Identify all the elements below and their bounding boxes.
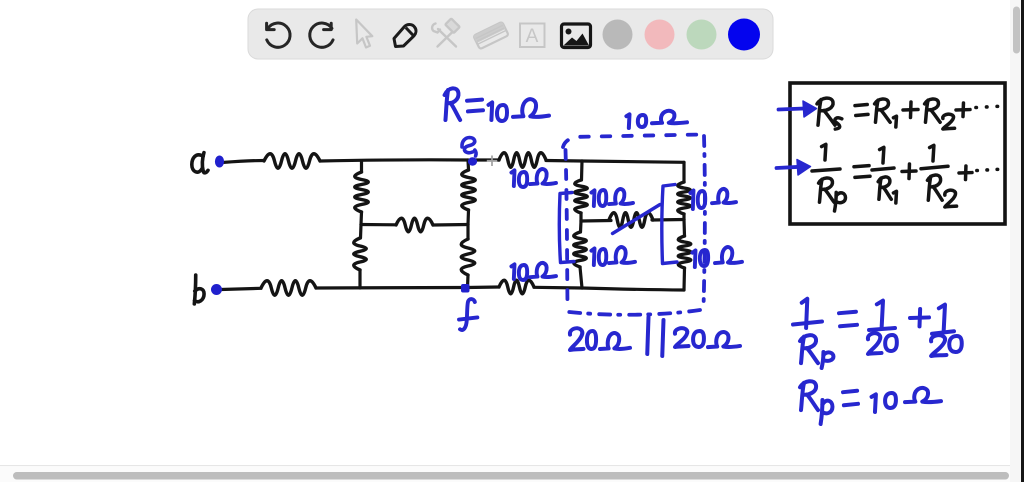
resistor b-J2 (bottom left) [261,281,316,296]
wire f to bottom 10ohm resistor [468,285,500,289]
middle wire J3 to resistor [361,223,396,227]
vertical scrollbar track [1010,0,1021,482]
toolbar green swatch [687,20,717,50]
resistor J3-J4 (middle bridge) [396,218,433,232]
toolbar red swatch [645,20,675,50]
value label 10ohm (box left lower) [591,248,594,265]
dashed equivalence box (bottom edge) [569,310,700,315]
resistor e-box (top 10ohm) [499,153,546,168]
toolbar pencil icon [394,25,416,47]
arrow to parallel formula [777,160,811,176]
value label 10ohm (box right lower) [692,250,695,267]
node dot e [468,157,477,165]
box right network: resistor middle (shorted/crossed-out) [609,213,653,228]
wire resistor to node J1 to node e [320,160,468,161]
terminal dot a [215,156,224,168]
pen crosshair cursor [487,156,497,167]
value label 10ohm (equivalent of dashed box) [626,114,629,128]
bracket (left resistor pair) [559,193,574,263]
wire resistor to box top-left corner [546,159,582,163]
bottom area [0,466,1021,482]
bracket (right resistor pair) [662,185,677,264]
middle wire resistor to J4 [433,223,468,227]
dashed equivalence box (top edge) [563,135,702,148]
formula Rs = R1 + R2 + ... (series rule) [817,98,835,125]
toolbar panel [248,9,773,59]
svg-text:A: A [526,26,539,47]
annotation 20ohm || 20ohm [570,328,584,350]
ladder rung: resistor J4-f (lower) [461,225,475,288]
resistor f-box (bottom 10ohm) [499,280,534,294]
wire b to resistor [221,288,261,289]
value label 10ohm (box left upper) [591,190,594,206]
toolbar redo icon [310,23,333,47]
box right network: resistor left-lower 10ohm [574,221,587,288]
formula Rp = 10 ohm [800,381,818,410]
toolbar image icon [562,24,591,48]
value label 10ohm (box right upper) [690,190,693,209]
window right edge [1021,0,1024,482]
node label a [192,153,208,173]
box right network: resistor right-lower 10ohm [678,220,691,291]
box middle wire left segment [581,219,611,223]
toolbar gray swatch [603,20,633,50]
box right network: resistor right-upper 10ohm [678,162,691,219]
box right network: resistor left-upper 10ohm [575,161,588,221]
terminal dot b [211,284,222,295]
vertical scrollbar thumb [1013,7,1020,54]
canvas bottom separator line [0,465,1024,466]
toolbar blue swatch (selected) [728,19,760,51]
arrow to series formula [779,101,817,117]
cross-out slash on middle resistor [613,205,661,234]
toolbar eraser icon [473,22,508,50]
wire a to resistor [222,161,264,163]
node label e [462,138,476,157]
node dot f (square) [461,284,470,293]
formula reference box frame [790,83,1005,224]
wire resistor to box bottom-left corner [534,286,582,290]
toolbar tools icon [432,18,460,46]
node label b [194,275,204,304]
formula 1/Rp = 1/20 + 1/20 [802,299,808,328]
ladder rung: resistor J3-J2 (lower) [354,225,367,289]
toolbar select-cursor icon [356,20,372,48]
box top edge wire [582,161,684,162]
title R = 10 ohm [445,88,461,120]
toolbar undo icon [267,23,290,47]
toolbar text icon [520,24,545,48]
formula 1/Rp = 1/R1 + 1/R2 + ... (parallel rule) [822,144,826,160]
dashed equivalence box (left edge) [566,150,568,306]
wire e to top 10ohm resistor [470,158,499,161]
ladder rung: resistor e-J4 (upper) [462,160,476,225]
ladder rung: resistor J1-J3 (upper) [355,161,369,225]
wire resistor to node J2 to node f [316,286,464,290]
box middle wire right segment [652,218,684,222]
horizontal scrollbar thumb [13,472,1009,480]
node label f [459,299,477,330]
value label 10ohm (bottom series resistor) [511,264,514,279]
resistor a-J1 (top left) [264,154,320,169]
value label 10ohm (top series resistor) [511,170,514,186]
box bottom edge wire [582,288,684,290]
dashed equivalence box (right edge) [704,136,705,308]
